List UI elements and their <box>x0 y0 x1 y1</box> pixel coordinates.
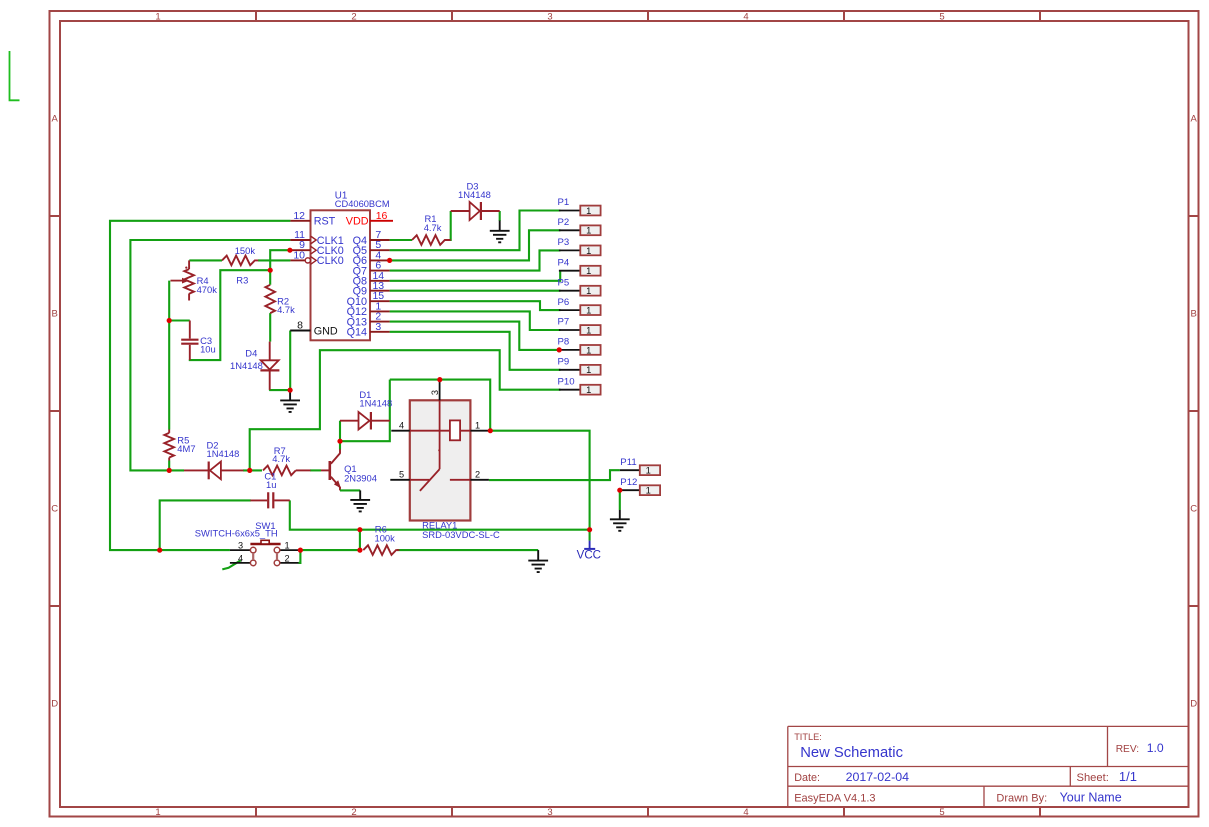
ground at D3 <box>490 221 510 243</box>
relay pin 5 <box>390 470 410 480</box>
svg-text:1: 1 <box>586 324 591 335</box>
connector P1 <box>558 197 601 216</box>
resistor R7 4.7k <box>263 445 311 475</box>
U1 pin 8 GND <box>290 320 338 338</box>
U1 pin 11 CLK1 <box>290 229 343 247</box>
wire CLK0 pin9 net to R2 top <box>270 250 290 285</box>
wire Q12 to P7 <box>390 311 561 330</box>
svg-text:1: 1 <box>586 265 591 276</box>
ground at D4 / U1 pin8 <box>280 390 300 412</box>
capacitor C1 1u <box>250 470 289 508</box>
svg-text:1N4148: 1N4148 <box>230 360 263 371</box>
svg-text:1: 1 <box>646 485 651 496</box>
diode D2 1N4148 <box>184 439 243 479</box>
relay pin 3 <box>430 380 440 401</box>
connector P8 <box>558 337 601 356</box>
svg-text:P9: P9 <box>558 357 570 368</box>
svg-text:1: 1 <box>586 344 591 355</box>
svg-text:1: 1 <box>586 384 591 395</box>
svg-text:P11: P11 <box>620 457 636 468</box>
svg-text:SRD-03VDC-SL-C: SRD-03VDC-SL-C <box>422 529 500 540</box>
svg-text:2: 2 <box>351 12 356 23</box>
svg-text:EasyEDA V4.1.3: EasyEDA V4.1.3 <box>794 792 875 804</box>
svg-text:P12: P12 <box>620 477 637 488</box>
connector P4 <box>558 257 601 276</box>
U1 pin 7 Q4 <box>353 229 390 247</box>
svg-text:C: C <box>1190 504 1197 515</box>
ground at P12 <box>610 510 630 531</box>
svg-text:1: 1 <box>586 305 591 316</box>
svg-text:GND: GND <box>314 326 338 338</box>
potentiometer R4 470k <box>171 260 218 300</box>
relay pin 1 <box>470 421 489 431</box>
svg-text:B: B <box>52 309 58 320</box>
origin marker <box>10 51 20 100</box>
svg-text:VDD: VDD <box>346 216 369 228</box>
svg-text:12: 12 <box>293 210 305 222</box>
wire R7 to Q1 base <box>310 469 321 471</box>
svg-text:1: 1 <box>586 245 591 256</box>
svg-text:2N3904: 2N3904 <box>344 472 377 483</box>
wire Q14 to P9 <box>390 332 561 370</box>
wire RST net (U1 pin12 to SW1 pin3) <box>110 221 290 550</box>
wire relay pin1 to VCC junction <box>490 431 589 530</box>
wire R4 wiper / C3 / R5 vertical <box>169 281 190 471</box>
diode D3 1N4148 <box>451 180 500 220</box>
ground at Q1 emitter <box>350 490 370 511</box>
resistor R5 4M7 <box>164 430 195 461</box>
svg-text:1: 1 <box>586 205 591 216</box>
svg-text:REV:: REV: <box>1116 744 1139 755</box>
wire Q4 pin7 to R1 <box>390 239 412 241</box>
svg-text:4.7k: 4.7k <box>277 304 295 315</box>
U1 pin 16 VDD <box>346 210 393 228</box>
wire C1 left to bottom rail <box>160 500 251 550</box>
svg-text:10: 10 <box>293 249 305 261</box>
svg-text:4.7k: 4.7k <box>272 453 290 464</box>
connector P10 <box>558 376 601 395</box>
svg-text:D4: D4 <box>245 347 257 358</box>
svg-text:16: 16 <box>376 210 388 222</box>
svg-text:3: 3 <box>238 540 243 550</box>
svg-text:A: A <box>1191 114 1198 125</box>
wire P12 to ground <box>619 490 621 510</box>
svg-text:3: 3 <box>547 807 552 818</box>
U1 pin 3 Q14 <box>347 321 390 339</box>
svg-text:2: 2 <box>475 470 480 480</box>
wire relay pin2 to P11 <box>489 470 620 480</box>
U1 pin 12 RST <box>290 210 335 228</box>
wire VCC rail horizontal <box>290 500 590 540</box>
svg-text:R3: R3 <box>236 274 248 285</box>
svg-text:1: 1 <box>646 465 651 476</box>
wire Q8 to P4 <box>390 271 561 281</box>
U1 pin 5 Q5 <box>353 239 390 257</box>
svg-text:470k: 470k <box>197 284 218 295</box>
relay pin 2 <box>470 470 489 480</box>
svg-text:P3: P3 <box>558 237 570 248</box>
svg-text:CD4060BCM: CD4060BCM <box>335 199 390 209</box>
resistor R2 4.7k vertical <box>265 285 295 315</box>
resistor R1 4.7k <box>412 213 451 245</box>
resistor R6 100k <box>363 524 399 555</box>
U1 pin 14 Q8 <box>353 270 390 288</box>
wire SW1 pin1 to R6 and ground <box>299 530 539 563</box>
wire D4 cathode to ground junction <box>270 388 290 391</box>
diode D1 1N4148 <box>340 389 392 430</box>
U1 pin 13 Q9 <box>353 280 390 298</box>
wire C3 bottom loop to R2 top junction <box>190 270 270 360</box>
svg-text:2: 2 <box>351 807 356 818</box>
svg-text:D: D <box>1190 699 1197 710</box>
wire R3 left lead to R4 top <box>189 259 222 261</box>
connector P5 <box>558 277 601 296</box>
svg-text:1: 1 <box>284 540 289 550</box>
svg-text:8: 8 <box>297 320 303 332</box>
svg-text:3: 3 <box>547 12 552 23</box>
connector P2 <box>558 217 601 236</box>
svg-text:1N4148: 1N4148 <box>359 397 392 408</box>
svg-text:1: 1 <box>586 225 591 236</box>
svg-text:P2: P2 <box>558 217 570 228</box>
connector P3 <box>558 237 601 256</box>
svg-text:SWITCH-6x6x5_TH: SWITCH-6x6x5_TH <box>195 528 278 539</box>
wire R3 right to U1 pin10 <box>258 259 290 261</box>
svg-text:Your Name: Your Name <box>1060 790 1122 804</box>
svg-text:B: B <box>1191 309 1197 320</box>
svg-text:1/1: 1/1 <box>1119 769 1137 784</box>
U1 pin 9 CLK0 <box>290 239 343 257</box>
title block <box>788 726 1189 806</box>
U1 pin 6 Q7 <box>353 260 390 278</box>
ground at R6 <box>528 550 548 572</box>
svg-text:1N4148: 1N4148 <box>207 448 240 459</box>
switch SW1 SWITCH-6x6x5_TH <box>195 520 299 566</box>
wire Q6 to P2 <box>390 230 561 260</box>
svg-text:P8: P8 <box>558 337 570 348</box>
svg-text:Drawn By:: Drawn By: <box>996 792 1047 804</box>
wire R2 bottom to D4 anode <box>269 313 271 342</box>
svg-text:Q14: Q14 <box>347 327 367 339</box>
wire stub at SW1 pin4 <box>222 560 241 569</box>
wire CLK1 net (U1 pin11 to D2/R5) <box>130 240 290 470</box>
wire Q10 to P6 <box>390 301 561 310</box>
svg-text:New Schematic: New Schematic <box>800 745 903 761</box>
U1 pin 2 Q13 <box>347 311 390 329</box>
svg-text:C: C <box>51 504 58 515</box>
svg-text:P5: P5 <box>558 277 570 288</box>
U1 pin 10 CLK0 inverted <box>290 249 343 267</box>
svg-text:A: A <box>52 114 59 125</box>
wire Q9 to P5 <box>390 290 561 292</box>
svg-text:CLK0: CLK0 <box>317 255 344 267</box>
svg-text:2: 2 <box>284 553 289 563</box>
svg-text:4M7: 4M7 <box>177 443 195 454</box>
wire R1 to D3 anode <box>448 211 451 240</box>
svg-text:P10: P10 <box>558 376 575 387</box>
svg-text:4: 4 <box>743 12 748 23</box>
wire U1 GND pin8 down to ground junction <box>289 331 291 391</box>
svg-text:4: 4 <box>238 553 243 563</box>
junction dots <box>157 248 622 553</box>
svg-text:Date:: Date: <box>794 772 820 784</box>
svg-text:1: 1 <box>155 12 160 23</box>
svg-text:5: 5 <box>939 12 944 23</box>
svg-text:100k: 100k <box>375 533 396 544</box>
svg-text:P7: P7 <box>558 317 570 328</box>
svg-text:150k: 150k <box>235 245 256 256</box>
svg-text:RST: RST <box>314 216 336 228</box>
capacitor C3 10u <box>181 321 216 361</box>
U1 pin 4 Q6 <box>353 249 390 267</box>
svg-text:4: 4 <box>399 421 404 431</box>
relay pin 4 <box>391 421 410 431</box>
svg-text:1.0: 1.0 <box>1147 741 1164 755</box>
svg-text:1N4148: 1N4148 <box>458 189 491 200</box>
transistor Q1 2N3904 <box>321 449 377 490</box>
connector P12 <box>620 477 660 496</box>
U1 pin 1 Q12 <box>347 300 390 318</box>
wire base net loop to P10 <box>250 350 561 470</box>
svg-text:VCC: VCC <box>577 550 601 562</box>
svg-text:1: 1 <box>475 421 480 431</box>
svg-text:P4: P4 <box>558 257 570 268</box>
U1 pin 15 Q10 <box>347 290 390 308</box>
svg-text:4.7k: 4.7k <box>424 222 442 233</box>
svg-text:1u: 1u <box>266 479 276 490</box>
svg-text:5: 5 <box>399 470 404 480</box>
diode D4 1N4148 <box>230 342 279 390</box>
svg-text:10u: 10u <box>200 344 216 355</box>
svg-text:1: 1 <box>586 285 591 296</box>
svg-text:3: 3 <box>430 390 440 395</box>
wire D3 cathode to ground <box>499 211 501 221</box>
resistor R3 150k <box>222 245 258 285</box>
connector P9 <box>558 357 601 376</box>
svg-text:2017-02-04: 2017-02-04 <box>846 770 909 784</box>
svg-text:TITLE:: TITLE: <box>794 732 822 742</box>
connector P6 <box>558 297 601 316</box>
svg-text:P1: P1 <box>558 197 570 208</box>
svg-text:D: D <box>51 699 58 710</box>
svg-text:Sheet:: Sheet: <box>1077 772 1109 784</box>
svg-text:5: 5 <box>939 807 944 818</box>
wire Q13 to P8 <box>390 322 560 350</box>
svg-text:P6: P6 <box>558 297 570 308</box>
U1 reference labels <box>335 191 390 210</box>
VCC power flag <box>577 541 601 562</box>
svg-text:3: 3 <box>375 321 381 333</box>
op IC U1 CD4060BCM body <box>311 210 371 340</box>
wire Q7 to P3 <box>390 250 561 270</box>
wire Q5 to P1 <box>390 211 561 251</box>
connector P11 <box>620 457 660 476</box>
svg-text:4: 4 <box>743 807 748 818</box>
svg-text:1: 1 <box>155 807 160 818</box>
connector P7 <box>558 317 601 336</box>
wire Q1 collector / D1 / relay pin4 net <box>340 380 490 450</box>
wire D2 anode to R7 <box>243 469 262 471</box>
svg-text:1: 1 <box>586 364 591 375</box>
relay RELAY1 SRD-03VDC-SL-C <box>410 400 500 540</box>
